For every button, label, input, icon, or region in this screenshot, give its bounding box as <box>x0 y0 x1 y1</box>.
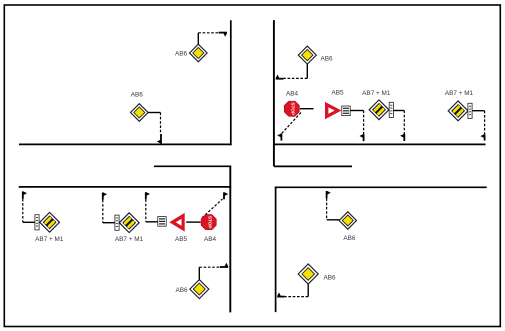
sign AB6 bottom-left post <box>198 267 200 280</box>
road edge bottom-left horizontal <box>19 186 232 188</box>
sign AB6 top-right leader dashed <box>284 77 308 79</box>
sign AB7 #4 bottom-left <box>119 213 139 233</box>
label AB6 upper-left <box>175 51 188 58</box>
svg-text:AB6: AB6 <box>320 56 333 63</box>
flag marker AB6 mid-left <box>157 134 161 143</box>
sign AB7 #1 top-right leader dashed <box>403 111 405 135</box>
plate M1 of AB7 #3 <box>35 215 39 230</box>
sign AB7 #3 leader dashed <box>22 199 24 223</box>
flag marker AB6 #1 bottom-right <box>327 191 331 198</box>
sign AB7 #2 top-right leader dashed <box>484 111 486 135</box>
flag marker AB6 #2 bottom-right <box>277 292 284 296</box>
sign AB4 stop top-right <box>284 101 299 116</box>
flag marker AB6 upper-left <box>219 33 227 37</box>
label AB4 top-right <box>286 91 299 98</box>
sign AB6 upper-left leader dashed <box>198 32 218 34</box>
road edge bottom-left vertical <box>229 166 231 313</box>
sign AB5 top-right leader dashed <box>363 111 365 135</box>
flag marker AB4 top-right <box>277 134 281 141</box>
label AB7 #4 <box>115 236 144 243</box>
sign AB4 top-right leader dashed <box>281 113 301 134</box>
flag marker AB6 top-right <box>276 75 284 79</box>
sign AB5 bottom-left leader dashed <box>145 199 147 222</box>
svg-text:AB5: AB5 <box>331 90 344 97</box>
label AB7 #2 top-right <box>445 90 474 97</box>
label AB5 bottom-left <box>175 236 188 243</box>
svg-text:AB7 + M1: AB7 + M1 <box>35 236 64 243</box>
flag marker AB4 bottom-left <box>224 192 228 199</box>
sign AB4 top-right post <box>300 108 314 110</box>
svg-text:AB6: AB6 <box>343 235 356 242</box>
sign AB7 #3 post <box>23 221 35 223</box>
label AB6 mid-left <box>131 92 144 99</box>
sign AB7 #2 top-right post <box>473 110 485 112</box>
label AB6 top-right <box>320 56 333 63</box>
label AB6 #1 bottom-right <box>343 235 356 242</box>
sign AB6 #2 bottom-right leader dashed <box>285 296 309 298</box>
sign AB6 mid-left leader dashed <box>160 113 162 135</box>
sign AB6 bottom-left leader dashed <box>199 266 220 268</box>
sign AB6 top-right post <box>306 64 308 78</box>
plate M1 of AB5 top-right <box>342 106 350 116</box>
svg-text:AB7 + M1: AB7 + M1 <box>362 90 391 97</box>
plate M1 of AB7 #4 <box>115 215 119 230</box>
road edge top-right vertical <box>273 20 275 166</box>
sign AB7 #1 top-right <box>369 100 389 120</box>
svg-text:STOP: STOP <box>290 102 296 115</box>
sign AB5 yield top-right <box>325 102 342 119</box>
sign AB6 #1 bottom-right leader dashed <box>326 198 328 220</box>
sign AB5 top-right post <box>350 110 363 112</box>
sign AB6 upper-left <box>190 44 208 62</box>
sign AB6 upper-left post <box>197 33 199 45</box>
sign AB7 #4 post <box>103 222 115 224</box>
label AB7 #3 <box>35 236 64 243</box>
sign AB4 stop bottom-left <box>201 215 216 230</box>
road edge top-left vertical <box>230 20 232 145</box>
sign AB5 yield bottom-left <box>169 213 184 232</box>
flag marker AB7 #3 bottom-left <box>23 191 27 198</box>
flag marker AB6 bottom-left <box>220 263 228 267</box>
svg-text:AB6: AB6 <box>175 51 188 58</box>
road edge left median horizontal <box>154 165 231 167</box>
road edge top-right horizontal <box>273 143 485 145</box>
sign AB7 #3 bottom-left <box>40 212 60 232</box>
flag marker AB7 #2 top-right <box>480 134 484 140</box>
sign AB6 #1 bottom-right post <box>327 219 340 221</box>
label AB5 top-right <box>331 90 344 97</box>
sign AB4 bottom-left leader dashed <box>202 199 223 218</box>
label AB6 #2 bottom-right <box>323 275 336 282</box>
road edge bottom-right vertical <box>275 187 277 313</box>
sign AB6 #2 bottom-right post <box>307 284 309 297</box>
sign AB7 #1 top-right post <box>393 110 404 112</box>
svg-text:AB6: AB6 <box>323 275 336 282</box>
road edge right median horizontal <box>274 165 352 167</box>
sign AB6 top-right <box>298 46 316 64</box>
svg-text:STOP: STOP <box>206 216 212 229</box>
flag marker AB7 #1 top-right <box>400 134 404 141</box>
plate M1 of AB5 bottom-left <box>158 217 166 227</box>
sign AB5 bottom-left post <box>146 221 158 223</box>
label AB4 bottom-left <box>204 236 217 243</box>
sign AB6 bottom-left <box>190 280 209 299</box>
plate M1 of AB7 #1 top-right <box>389 102 393 117</box>
road edge top-left horizontal <box>19 143 232 145</box>
svg-text:AB4: AB4 <box>286 91 299 98</box>
sign AB4 bottom-left post <box>186 221 201 223</box>
svg-text:AB6: AB6 <box>175 287 188 294</box>
sign AB6 #2 bottom-right <box>298 264 318 284</box>
flag marker AB5 bottom-left <box>146 192 150 199</box>
label AB6 bottom-left <box>175 287 188 294</box>
sign AB6 mid-left <box>131 104 149 122</box>
label AB7 #1 top-right <box>362 90 391 97</box>
sign AB6 mid-left post <box>148 112 160 114</box>
svg-text:AB5: AB5 <box>175 236 188 243</box>
svg-text:AB4: AB4 <box>204 236 217 243</box>
flag marker AB7 #4 bottom-left <box>103 193 107 200</box>
sign AB6 #1 bottom-right <box>339 212 356 229</box>
sign AB7 #2 top-right <box>448 101 468 121</box>
road edge bottom-right horizontal <box>275 186 487 188</box>
svg-text:AB7 + M1: AB7 + M1 <box>115 236 144 243</box>
sign AB7 #4 leader dashed <box>102 200 104 223</box>
flag marker AB5 top-right <box>359 134 363 141</box>
svg-text:AB7 + M1: AB7 + M1 <box>445 90 474 97</box>
plate M1 of AB7 #2 top-right <box>468 103 472 118</box>
svg-text:AB6: AB6 <box>131 92 144 99</box>
